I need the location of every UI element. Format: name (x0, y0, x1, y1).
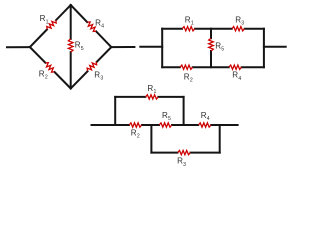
resistor R1 (circuit 1) (47, 20, 56, 29)
wire: circuit 1 center branch (70, 5, 72, 39)
resistor R4 (circuit 2) (229, 65, 242, 69)
svg-text:R1: R1 (40, 14, 49, 25)
svg-text:R4: R4 (201, 111, 210, 122)
resistor R5 (circuit 2) (209, 38, 214, 51)
wire: circuit 3 top loop (114, 97, 116, 125)
wire: circuit 1 left lead (7, 46, 30, 48)
wire: circuit 2 left lead (140, 46, 162, 48)
resistor R4 (circuit 1) (87, 22, 96, 31)
wire: circuit 2 bottom rail (162, 66, 180, 68)
svg-text:R1: R1 (185, 16, 194, 27)
wire: circuit 2 top rail (162, 28, 182, 30)
wire: circuit 1 lower-left arm (30, 47, 45, 63)
svg-text:R3: R3 (177, 157, 186, 168)
wire: circuit 1 upper-left arm (30, 29, 47, 47)
wire: circuit 1 upper-right arm (71, 5, 87, 22)
wire: circuit 2 middle branch (210, 29, 212, 39)
svg-text:R2: R2 (131, 129, 140, 140)
svg-text:R4: R4 (232, 71, 241, 82)
wire: circuit 2 right side (263, 29, 265, 67)
svg-text:R3: R3 (94, 70, 103, 81)
svg-text:R4: R4 (95, 18, 104, 29)
wire: circuit 3 right lead (220, 124, 238, 126)
wire: circuit 2 right lead (264, 46, 286, 48)
svg-text:R1: R1 (147, 84, 156, 95)
wire: circuit 3 left lead (92, 124, 116, 126)
wire: circuit 1 right lead (111, 46, 134, 48)
resistor R1 (circuit 2) (182, 27, 195, 31)
resistor R2 (circuit 1) (45, 63, 54, 72)
resistor R4 (circuit 3) (198, 123, 211, 127)
resistor R3 (circuit 2) (232, 27, 245, 31)
wire: circuit 2 left side (161, 29, 163, 67)
svg-text:R5: R5 (75, 41, 84, 52)
svg-text:R2: R2 (184, 72, 193, 83)
svg-text:R3: R3 (235, 16, 244, 27)
resistor R3 (circuit 3) (178, 150, 191, 154)
wire: circuit 3 bottom loop (150, 125, 152, 153)
svg-text:R2: R2 (39, 70, 48, 81)
svg-text:R5: R5 (162, 111, 171, 122)
resistor R2 (circuit 3) (129, 123, 142, 127)
wire: circuit 3 main line (115, 124, 129, 126)
resistor R1 (circuit 3) (146, 95, 159, 99)
resistor R5 (circuit 1) (68, 39, 73, 52)
svg-text:R5: R5 (215, 41, 224, 52)
wire: circuit 1 lower-right arm (71, 71, 88, 88)
resistor R2 (circuit 2) (180, 65, 193, 69)
resistor R5 (circuit 3) (159, 123, 172, 127)
resistor R3 (circuit 1) (87, 62, 96, 71)
